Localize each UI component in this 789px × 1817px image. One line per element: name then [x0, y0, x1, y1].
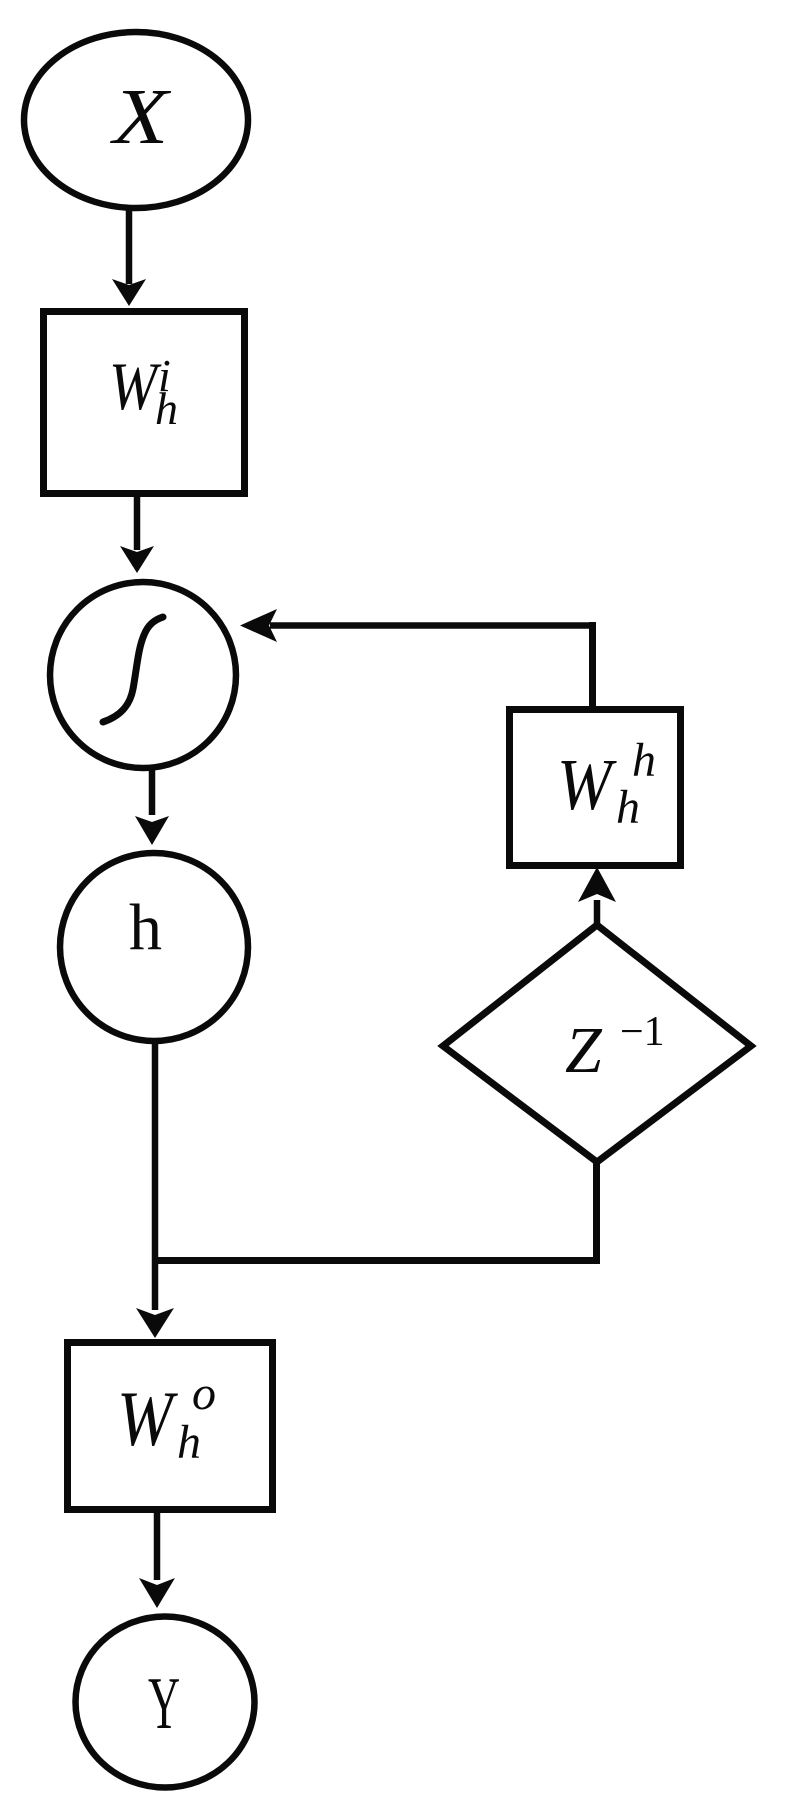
wire feedback: vertical from Whh box top up, then left to sigmoid circle (arrow left) [240, 609, 596, 706]
svg-text:h: h [177, 1416, 201, 1469]
node h (hidden state circle) [60, 853, 248, 1041]
svg-text:h: h [632, 734, 656, 787]
wire Wih box to sigmoid circle (arrow down) [120, 497, 154, 573]
wire sigmoid circle to h circle (arrow down) [135, 768, 169, 845]
node X (input ellipse) [24, 32, 248, 208]
node Y (output circle) [76, 1617, 255, 1788]
delay element diamond Z^-1 [443, 925, 751, 1162]
wire diamond to Whh box (arrow up) [578, 867, 616, 925]
svg-text:h: h [129, 891, 162, 964]
wire X to Wih box (arrow down) [112, 208, 146, 306]
svg-text:X: X [110, 73, 171, 161]
svg-text:h: h [616, 781, 640, 834]
box W_h^o [68, 1343, 273, 1510]
wire Who box to Y circle (arrow down) [139, 1513, 175, 1608]
wire vertical from diamond bottom to branch [593, 1159, 600, 1264]
box W_h^h [510, 710, 681, 866]
svg-text:h: h [155, 383, 178, 434]
svg-text:W: W [117, 1375, 179, 1462]
box W_h^i [44, 312, 245, 494]
svg-text:W: W [557, 745, 618, 826]
wire h down to Who box (arrow down, long vertical) [136, 1041, 174, 1338]
svg-text:o: o [192, 1367, 216, 1420]
wire branch: horizontal from h line to below diamond [152, 1257, 600, 1264]
svg-text:−1: −1 [620, 1009, 665, 1055]
svg-text:Y: Y [148, 1664, 180, 1745]
svg-text:Z: Z [565, 1014, 603, 1087]
sigmoid activation circle U1 [50, 582, 236, 768]
